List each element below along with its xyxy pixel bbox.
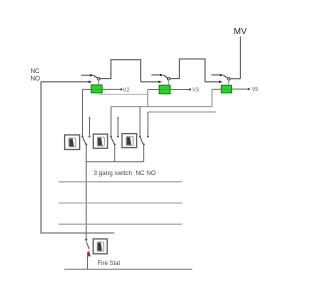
switch SW1 lower contact arrow [89,81,92,84]
wire V3 lead drop junction [147,90,149,107]
svg-text:3 gang switch NC NO: 3 gang switch NC NO [94,170,156,177]
wire SW1 pivot to actuator V2 [98,80,100,85]
wire actuator V5 right lead [232,88,247,90]
switch SW1 upper contact stub [81,74,90,76]
wire SW1 common loop to SW2 lower contact [100,60,141,82]
wire MV drop [239,37,241,79]
wire NO feed to SW1 lower contact [41,81,89,83]
wire actuator V2 right lead [102,88,119,90]
wire SW3 common to MV [230,78,240,80]
gang switch unit 3 icon [122,134,137,148]
terminal rail line 2 [59,202,183,204]
switch SW2 lower contact arrow [158,81,161,84]
svg-text:Fire Stat: Fire Stat [98,261,121,267]
gang switch unit 1 icon [65,135,80,150]
wire bottom rail [64,268,192,270]
wire actuator V3 right lead [170,89,188,91]
gang switch unit 3 contacts [139,112,149,162]
svg-text:NC: NC [31,68,41,75]
switch SW1 blade [93,75,97,78]
wire gang1 feed drop [82,89,84,135]
svg-text:MV: MV [234,26,247,36]
wire SW2 common loop to SW3 lower contact [170,59,219,82]
wire SW3 pivot to actuator V5 [228,80,230,85]
gang switch unit 2 contacts [110,116,119,162]
switch SW3 upper contact stub [211,74,219,76]
wire V5 lead drop junction [211,89,213,106]
actuator V2 (green box) [91,85,102,93]
wire actuator V5 left lead [212,88,221,90]
switch SW1 pivot [98,78,101,81]
svg-text:NO: NO [31,75,41,82]
fire stat switch blade [87,242,90,249]
gang switch unit 2 icon [93,134,107,148]
wire actuator V2 bottom link [99,93,147,95]
gang switch unit 1 contacts [81,116,90,162]
wire gang bus drop to fire stat [85,162,87,239]
switch SW3 lower contact arrow [219,81,222,84]
switch SW2 blade [163,75,167,78]
wire gang3 feed drop [139,107,141,136]
switch SW2 upper contact stub [151,74,160,76]
switch SW2 pivot [167,78,170,81]
wire SW2 pivot to actuator V3 [167,80,169,85]
fire stat actuation arrow (red) [87,250,91,256]
wire gang output bus [86,161,144,163]
svg-text:V5: V5 [252,87,259,93]
terminal rail line 1 [59,181,183,183]
terminal rail line 3 [59,223,183,225]
wire horizontal bus upper (to gang switch feeds) [111,106,212,108]
wire gang2 feed drop [110,107,112,136]
wire horizontal bus lower [148,111,216,113]
switch SW3 pivot [228,78,231,81]
actuator V5 (green box) [221,85,231,93]
fire stat icon [93,239,107,254]
svg-text:V2: V2 [123,87,130,93]
switch SW3 blade [223,75,228,78]
fire stat output wire [87,252,89,269]
wire actuator V2 left lead [83,88,92,90]
wire SW2 lower contact line [141,81,159,83]
actuator V3 (green box) [159,85,170,94]
wire actuator V3 left lead [148,89,160,91]
wire left rail (NO feed down to bottom) [41,82,114,233]
svg-text:V3: V3 [192,87,199,93]
